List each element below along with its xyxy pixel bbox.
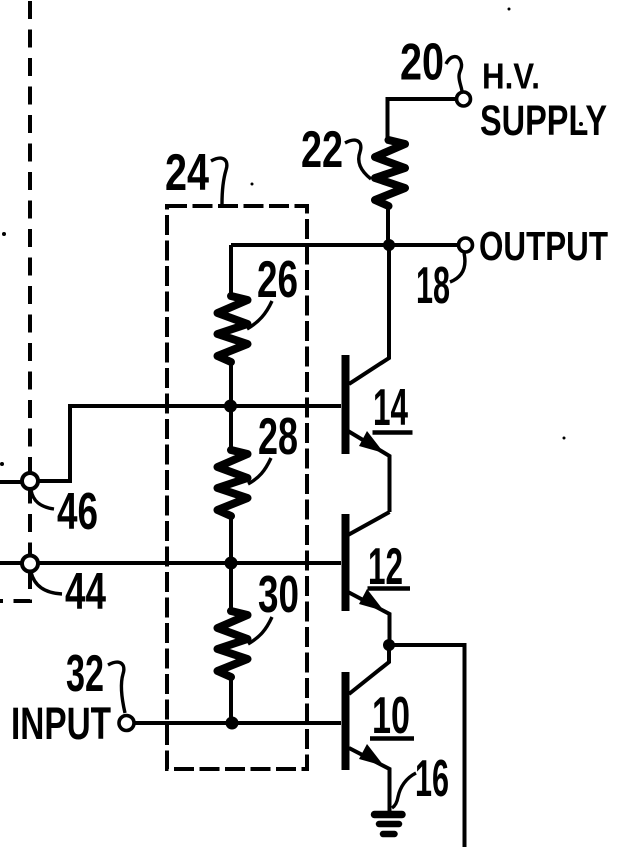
transistor Q10 base bar	[342, 672, 350, 770]
wire junction to right rail	[389, 645, 465, 847]
transistor Q12 collector	[348, 512, 390, 535]
transistor Q12 emitter	[348, 592, 390, 645]
arrow Q12 emitter	[359, 589, 384, 611]
underline 10	[370, 736, 414, 741]
transistor Q14 collector	[349, 245, 389, 384]
wire node line 46	[39, 406, 341, 481]
transistor Q10 collector	[349, 645, 389, 694]
wire terminal 46 stub	[0, 480, 22, 484]
transistor Q12 base bar	[342, 514, 350, 611]
resistor 22	[375, 140, 405, 206]
resistor 28	[218, 450, 248, 516]
terminal circle INPUT	[119, 716, 134, 731]
svg-text:INPUT: INPUT	[11, 698, 111, 749]
wire node line 44	[0, 561, 341, 565]
svg-text:30: 30	[258, 566, 299, 624]
leader squiggle 28	[248, 458, 271, 484]
svg-text:14: 14	[373, 379, 408, 437]
transistor Q14 base bar	[342, 355, 350, 454]
transistor Q14 emitter	[348, 431, 390, 512]
dashed box 24	[167, 206, 307, 769]
wire H.V. supply to resistor 22	[388, 99, 458, 140]
svg-text:16: 16	[415, 750, 449, 808]
wire resistor 26/28 node down	[229, 406, 233, 450]
leader squiggle 16	[392, 773, 416, 808]
svg-text:26: 26	[257, 251, 298, 309]
arrow Q10 emitter	[359, 744, 384, 766]
leader squiggle 32	[108, 662, 125, 713]
specks	[0, 8, 583, 467]
wire resistor 30 to input line	[229, 677, 233, 723]
leader squiggle 18	[450, 253, 465, 282]
terminal circle 46	[22, 473, 38, 489]
leader squiggle 44	[31, 572, 62, 594]
svg-text:46: 46	[57, 483, 98, 541]
svg-text:24: 24	[165, 144, 209, 202]
svg-text:SUPPLY: SUPPLY	[480, 97, 607, 145]
leader squiggle 26	[247, 301, 272, 329]
wire output node line	[231, 243, 459, 247]
terminal circle OUTPUT	[459, 238, 473, 252]
leader squiggle 20	[446, 57, 462, 91]
terminal circle H.V.	[457, 92, 471, 106]
wire input line	[134, 721, 341, 725]
svg-text:18: 18	[416, 257, 450, 315]
svg-text:44: 44	[65, 563, 106, 621]
resistor 26	[218, 296, 248, 362]
wire resistor 28 to node 44	[229, 516, 233, 563]
ground	[375, 815, 403, 835]
leader squiggle 30	[248, 617, 272, 644]
svg-text:28: 28	[258, 408, 298, 466]
arrow Q14 emitter	[359, 431, 384, 453]
svg-text:20: 20	[400, 34, 444, 92]
wire output node to resistor 26	[229, 245, 233, 296]
transistor Q10 emitter	[349, 748, 390, 812]
svg-text:H.V.: H.V.	[482, 56, 540, 97]
wire resistor 26 to node 46	[229, 362, 233, 406]
svg-text:32: 32	[66, 645, 104, 703]
svg-text:OUTPUT: OUTPUT	[479, 223, 608, 269]
svg-text:22: 22	[301, 121, 343, 179]
terminal circle 44	[22, 556, 38, 572]
wire resistor 30 top	[229, 563, 233, 611]
underline 14	[373, 430, 413, 435]
dashed bus line left	[0, 1, 30, 601]
junction node dots	[383, 239, 395, 251]
wire resistor 22 to output node	[386, 206, 390, 245]
leader squiggle 22	[345, 140, 371, 179]
leader squiggle 24	[211, 158, 227, 204]
underline 12	[368, 586, 411, 591]
leader squiggle 46	[31, 490, 54, 509]
resistor 30	[218, 611, 248, 677]
